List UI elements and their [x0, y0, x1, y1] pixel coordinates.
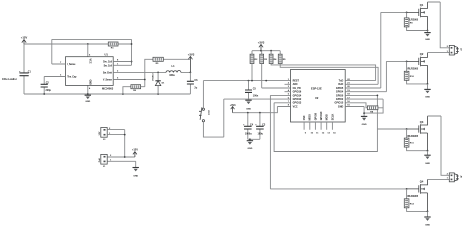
svg-text:GPIO4: GPIO4	[336, 91, 344, 94]
svg-text:Tim_Cap: Tim_Cap	[67, 77, 77, 79]
svg-text:GND: GND	[88, 80, 91, 86]
svg-text:RxD: RxD	[338, 83, 343, 86]
svg-text:GPIO9: GPIO9	[314, 112, 317, 120]
svg-text:GND: GND	[362, 124, 367, 126]
svg-text:PoE: PoE	[99, 158, 101, 163]
svg-text:GND: GND	[425, 225, 430, 227]
svg-text:GPIO10: GPIO10	[320, 111, 323, 120]
svg-text:TxD: TxD	[339, 80, 344, 83]
svg-text:1N5819: 1N5819	[152, 73, 154, 81]
svg-text:GND: GND	[425, 96, 430, 98]
svg-text:GPIO0: GPIO0	[336, 94, 344, 97]
svg-text:GPIO2: GPIO2	[336, 98, 344, 101]
svg-text:ESP-12E: ESP-12E	[311, 86, 322, 90]
svg-text:Q4: Q4	[420, 180, 424, 184]
svg-text:GND: GND	[425, 39, 430, 41]
svg-text:100n: 100n	[253, 94, 259, 97]
svg-text:1000u: 1000u	[245, 133, 252, 136]
svg-text:GPIO15: GPIO15	[335, 102, 344, 105]
svg-text:Drv_Coll: Drv_Coll	[103, 62, 112, 64]
svg-text:CS0: CS0	[303, 115, 306, 120]
svg-text:Q3: Q3	[420, 120, 424, 124]
svg-text:CH_PD: CH_PD	[293, 87, 301, 90]
svg-text:U2: U2	[315, 96, 319, 100]
svg-text:U1: U1	[105, 53, 109, 57]
svg-text:Q1: Q1	[420, 3, 424, 7]
svg-text:GPIO16: GPIO16	[293, 91, 302, 94]
svg-text:MC34063: MC34063	[102, 87, 114, 91]
svg-text:12V: 12V	[99, 131, 101, 135]
svg-text:GPIO14: GPIO14	[293, 94, 302, 97]
svg-text:+3V3: +3V3	[188, 52, 195, 56]
svg-text:Q2: Q2	[420, 52, 424, 56]
svg-text:+12V: +12V	[132, 148, 138, 152]
svg-text:Sw_Emit: Sw_Emit	[103, 71, 112, 74]
svg-text:GND: GND	[338, 105, 344, 108]
svg-text:220p: 220p	[46, 89, 52, 92]
svg-text:GND: GND	[246, 108, 251, 110]
svg-text:GND: GND	[133, 175, 138, 177]
svg-text:IRLR2905: IRLR2905	[407, 135, 419, 138]
svg-text:ADC: ADC	[293, 83, 298, 86]
svg-text:IRLR2905: IRLR2905	[407, 195, 419, 198]
svg-text:100u LowEsr: 100u LowEsr	[2, 78, 17, 81]
svg-text:REST: REST	[293, 80, 300, 83]
svg-text:MOSI: MOSI	[326, 114, 329, 120]
svg-text:MISO: MISO	[309, 114, 312, 120]
svg-text:GPIO13: GPIO13	[293, 102, 302, 105]
svg-text:VCC: VCC	[293, 105, 298, 108]
svg-text:GND: GND	[85, 101, 90, 103]
svg-text:VCC: VCC	[88, 59, 91, 64]
svg-text:V_Sense: V_Sense	[103, 80, 113, 82]
svg-text:+12V: +12V	[21, 35, 28, 39]
svg-text:GPIO12: GPIO12	[293, 98, 302, 101]
svg-text:IRLR2905: IRLR2905	[407, 67, 419, 70]
svg-text:GND: GND	[247, 148, 252, 150]
svg-text:GND: GND	[425, 163, 430, 165]
svg-text:Sw_Coll: Sw_Coll	[104, 65, 113, 67]
svg-text:330u: 330u	[169, 74, 175, 77]
svg-text:100u: 100u	[258, 133, 264, 136]
svg-text:+3V3: +3V3	[258, 40, 265, 44]
svg-text:I_Sense: I_Sense	[67, 64, 76, 66]
svg-text:GPIO5: GPIO5	[336, 87, 344, 90]
svg-text:SCLK: SCLK	[331, 114, 334, 121]
svg-text:RST: RST	[207, 111, 209, 116]
